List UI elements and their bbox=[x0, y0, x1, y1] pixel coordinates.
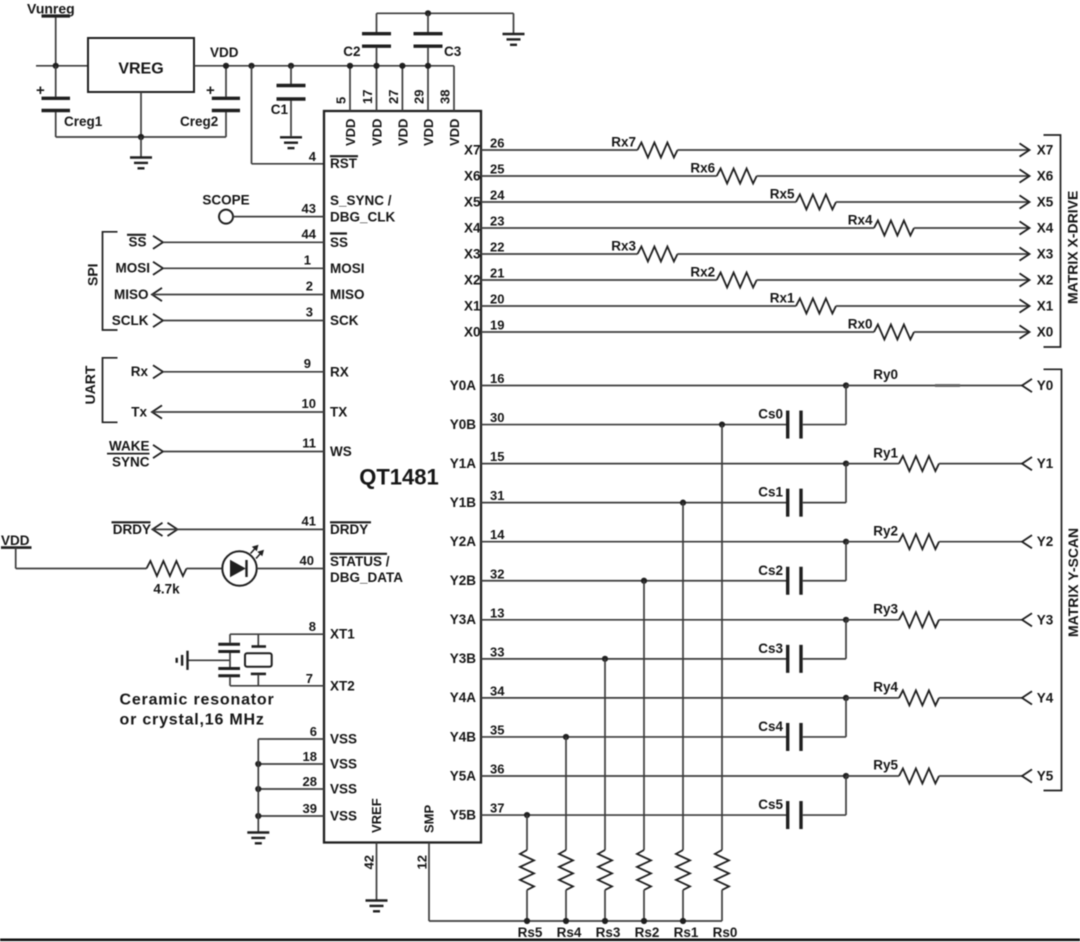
svg-text:VDD: VDD bbox=[395, 119, 410, 146]
svg-text:WAKE: WAKE bbox=[109, 438, 150, 453]
svg-text:SCK: SCK bbox=[330, 313, 359, 328]
svg-text:MOSI: MOSI bbox=[330, 261, 365, 276]
svg-text:UART: UART bbox=[82, 365, 98, 404]
ground (VSS) bbox=[247, 833, 269, 844]
svg-text:Y1B: Y1B bbox=[450, 495, 477, 510]
svg-text:Rx1: Rx1 bbox=[770, 291, 795, 306]
svg-text:32: 32 bbox=[490, 566, 504, 581]
svg-text:MATRIX X-DRIVE: MATRIX X-DRIVE bbox=[1065, 191, 1080, 304]
Y3B row: pin 33, capacitor Cs3 bbox=[450, 620, 846, 673]
svg-text:S_SYNC /: S_SYNC / bbox=[330, 193, 392, 208]
X4 row: pin 23, resistor Rx4, net X4 bbox=[464, 213, 1054, 236]
resistor Rs4 (Y4B sample line) bbox=[557, 737, 582, 940]
wire Vunreg down bbox=[55, 18, 57, 66]
Y1A row: pin 15, resistor Ry1, net Y1 bbox=[450, 445, 1054, 471]
Y2A row: pin 14, resistor Ry2, net Y2 bbox=[450, 523, 1054, 549]
svg-text:10: 10 bbox=[302, 396, 316, 411]
svg-text:STATUS /: STATUS / bbox=[330, 554, 390, 569]
svg-text:8: 8 bbox=[309, 619, 316, 634]
pin 28 VSS bbox=[255, 774, 357, 796]
pin 43 S_SYNC/DBG_CLK wire bbox=[233, 193, 396, 225]
svg-text:X4: X4 bbox=[464, 220, 481, 235]
svg-text:VDD: VDD bbox=[210, 45, 239, 60]
svg-text:X6: X6 bbox=[1037, 169, 1054, 184]
svg-text:DRDY: DRDY bbox=[330, 522, 368, 537]
svg-text:Rs2: Rs2 bbox=[635, 925, 660, 940]
pin 27 VDD bbox=[386, 63, 411, 146]
svg-text:33: 33 bbox=[490, 644, 504, 659]
bracket MATRIX Y-SCAN bbox=[1044, 369, 1080, 790]
svg-text:14: 14 bbox=[490, 527, 505, 542]
svg-text:25: 25 bbox=[490, 162, 504, 177]
svg-text:Rs4: Rs4 bbox=[557, 925, 582, 940]
svg-text:11: 11 bbox=[302, 436, 316, 451]
svg-text:XT2: XT2 bbox=[330, 678, 355, 693]
wire VREG bottom bbox=[140, 92, 142, 137]
net label Vunreg bbox=[27, 1, 75, 17]
svg-text:Cs0: Cs0 bbox=[758, 407, 783, 422]
svg-text:SCOPE: SCOPE bbox=[202, 193, 249, 208]
svg-text:39: 39 bbox=[303, 801, 317, 816]
svg-text:6: 6 bbox=[310, 724, 317, 739]
svg-text:Y0B: Y0B bbox=[450, 417, 477, 432]
X3 row: pin 22, resistor Rx3, net X3 bbox=[464, 239, 1054, 262]
svg-text:Rs0: Rs0 bbox=[713, 925, 738, 940]
svg-text:Y2B: Y2B bbox=[450, 573, 477, 588]
svg-text:5: 5 bbox=[334, 97, 349, 104]
svg-text:Y3: Y3 bbox=[1037, 612, 1054, 627]
svg-text:RST: RST bbox=[330, 156, 358, 171]
pin 18 VSS bbox=[255, 749, 357, 771]
X2 row: pin 21, resistor Rx2, net X2 bbox=[464, 265, 1053, 288]
svg-text:X3: X3 bbox=[1037, 247, 1054, 262]
svg-text:4: 4 bbox=[309, 149, 317, 164]
svg-text:15: 15 bbox=[490, 449, 504, 464]
ground (VREF) bbox=[366, 901, 388, 912]
svg-text:Rx7: Rx7 bbox=[611, 135, 636, 150]
pin 41 DRDY bbox=[112, 514, 372, 537]
pin 39 VSS bbox=[255, 801, 357, 823]
svg-text:or crystal,16 MHz: or crystal,16 MHz bbox=[120, 712, 265, 729]
voltage regulator VREG bbox=[88, 38, 194, 92]
pin 5 VDD bbox=[334, 63, 359, 146]
wire Creg1 to Creg2 bottom bbox=[56, 136, 226, 138]
svg-text:2: 2 bbox=[306, 279, 313, 294]
svg-text:Y3B: Y3B bbox=[450, 651, 477, 666]
svg-text:X2: X2 bbox=[1037, 273, 1054, 288]
resistor Rs1 (Y1B sample line) bbox=[674, 503, 699, 940]
SCOPE node bbox=[202, 193, 249, 224]
svg-text:Ry2: Ry2 bbox=[873, 523, 898, 538]
svg-text:Rx4: Rx4 bbox=[848, 213, 873, 228]
svg-text:VREF: VREF bbox=[369, 798, 384, 833]
capacitor C1 bbox=[271, 66, 306, 136]
svg-text:QT1481: QT1481 bbox=[359, 465, 439, 490]
svg-text:X0: X0 bbox=[1037, 325, 1054, 340]
ground (resonator) bbox=[177, 651, 188, 670]
X6 row: pin 25, resistor Rx6, net X6 bbox=[464, 161, 1054, 184]
svg-text:MOSI: MOSI bbox=[115, 261, 150, 276]
junction VDD/C1 bbox=[288, 63, 294, 69]
svg-text:Ry1: Ry1 bbox=[873, 445, 898, 460]
svg-text:Rx0: Rx0 bbox=[848, 317, 873, 332]
svg-text:MISO: MISO bbox=[114, 287, 149, 302]
svg-text:Ry0: Ry0 bbox=[873, 367, 898, 382]
svg-text:X7: X7 bbox=[464, 142, 481, 157]
junction VDD/RST drop bbox=[248, 63, 254, 69]
svg-text:18: 18 bbox=[303, 749, 317, 764]
svg-text:17: 17 bbox=[360, 90, 375, 104]
IC U1 QT1481 body bbox=[324, 111, 481, 843]
svg-text:+: + bbox=[206, 82, 215, 99]
svg-text:30: 30 bbox=[490, 410, 504, 425]
junction VREG ground bbox=[138, 134, 144, 140]
resistor Rs0 (Y0B sample line) bbox=[713, 425, 738, 940]
svg-text:Y4A: Y4A bbox=[450, 690, 477, 705]
svg-text:C2: C2 bbox=[343, 44, 360, 59]
pin 29 VDD bbox=[412, 63, 437, 146]
bracket MATRIX X-DRIVE bbox=[1044, 135, 1080, 347]
capacitor Creg1 bbox=[36, 66, 103, 137]
svg-text:Rs5: Rs5 bbox=[518, 925, 543, 940]
svg-text:29: 29 bbox=[412, 90, 427, 104]
svg-text:23: 23 bbox=[490, 214, 504, 229]
svg-text:MATRIX Y-SCAN: MATRIX Y-SCAN bbox=[1065, 528, 1080, 637]
X7 row: pin 26, resistor Rx7, net X7 bbox=[464, 135, 1053, 158]
svg-text:Y2: Y2 bbox=[1037, 534, 1054, 549]
svg-text:Y4: Y4 bbox=[1037, 690, 1054, 705]
svg-text:Rs1: Rs1 bbox=[674, 925, 699, 940]
svg-text:+: + bbox=[36, 82, 45, 99]
Y1B row: pin 31, capacitor Cs1 bbox=[450, 464, 846, 517]
wire top rail bbox=[377, 12, 514, 14]
ground (VREG) bbox=[130, 137, 152, 168]
svg-text:DRDY: DRDY bbox=[113, 522, 151, 537]
svg-text:27: 27 bbox=[386, 90, 401, 104]
svg-text:Rx2: Rx2 bbox=[690, 265, 715, 280]
svg-text:37: 37 bbox=[490, 801, 504, 816]
svg-text:C3: C3 bbox=[444, 44, 462, 59]
ground (C1) bbox=[280, 137, 302, 148]
svg-text:40: 40 bbox=[300, 553, 314, 568]
svg-text:VSS: VSS bbox=[330, 781, 357, 796]
svg-text:Y3A: Y3A bbox=[450, 612, 477, 627]
svg-text:Y2A: Y2A bbox=[450, 534, 477, 549]
svg-text:Creg2: Creg2 bbox=[180, 114, 218, 129]
svg-text:X5: X5 bbox=[464, 194, 481, 209]
svg-text:X4: X4 bbox=[1037, 221, 1054, 236]
svg-text:X5: X5 bbox=[1037, 195, 1054, 210]
svg-text:Vunreg: Vunreg bbox=[27, 1, 75, 17]
wire VDD rail bbox=[194, 65, 454, 67]
UART bracket bbox=[82, 358, 118, 423]
svg-text:19: 19 bbox=[490, 318, 504, 333]
svg-text:Ry4: Ry4 bbox=[873, 680, 898, 695]
svg-text:Creg1: Creg1 bbox=[64, 114, 103, 129]
pin 3 SCK bbox=[112, 305, 359, 328]
svg-text:SYNC: SYNC bbox=[112, 455, 150, 470]
svg-text:35: 35 bbox=[490, 722, 504, 737]
svg-text:Cs3: Cs3 bbox=[758, 641, 783, 656]
svg-text:Cs2: Cs2 bbox=[758, 563, 783, 578]
svg-text:Cs1: Cs1 bbox=[758, 485, 783, 500]
pin 4 RST label bbox=[309, 149, 358, 171]
svg-text:Rx6: Rx6 bbox=[690, 161, 715, 176]
svg-text:12: 12 bbox=[415, 855, 430, 869]
Y5A row: pin 36, resistor Ry5, net Y5 bbox=[450, 758, 1054, 784]
svg-text:41: 41 bbox=[302, 514, 316, 529]
pin 40 STATUS wire bbox=[257, 553, 403, 585]
Y0A row: pin 16, resistor Ry0, net Y0 bbox=[450, 367, 1054, 393]
wire RST drop bbox=[252, 66, 325, 164]
pin 8 XT1 wire bbox=[230, 619, 355, 642]
svg-text:Rx: Rx bbox=[131, 364, 149, 379]
svg-text:VDD: VDD bbox=[343, 119, 358, 146]
svg-text:26: 26 bbox=[490, 136, 504, 151]
svg-text:DBG_DATA: DBG_DATA bbox=[330, 570, 403, 585]
svg-text:38: 38 bbox=[438, 90, 453, 104]
svg-text:Ry3: Ry3 bbox=[873, 602, 898, 617]
capacitor XT load top bbox=[218, 634, 240, 660]
pin 10 TX bbox=[131, 396, 347, 419]
svg-text:7: 7 bbox=[306, 671, 313, 686]
svg-text:VDD: VDD bbox=[1, 533, 30, 548]
svg-text:Tx: Tx bbox=[131, 405, 147, 420]
svg-text:C1: C1 bbox=[271, 102, 289, 117]
svg-text:Y1A: Y1A bbox=[450, 456, 477, 471]
label ceramic resonator bbox=[120, 692, 275, 729]
net label VDD (LED) bbox=[1, 533, 32, 548]
Y2B row: pin 32, capacitor Cs2 bbox=[450, 542, 846, 595]
pin 6 VSS bbox=[258, 724, 357, 746]
svg-text:Rs3: Rs3 bbox=[596, 925, 621, 940]
svg-text:24: 24 bbox=[490, 188, 505, 203]
svg-text:WS: WS bbox=[330, 444, 352, 459]
svg-text:VSS: VSS bbox=[330, 756, 357, 771]
svg-text:Y5B: Y5B bbox=[450, 807, 477, 822]
svg-text:20: 20 bbox=[490, 292, 504, 307]
pin 1 MOSI bbox=[115, 253, 364, 276]
capacitor XT load bottom bbox=[218, 660, 240, 686]
svg-text:X3: X3 bbox=[464, 246, 481, 261]
X0 row: pin 19, resistor Rx0, net X0 bbox=[464, 317, 1053, 340]
resistor 4.7k bbox=[147, 561, 187, 597]
svg-text:31: 31 bbox=[490, 488, 504, 503]
wire top rail to ground bbox=[513, 13, 515, 33]
svg-text:9: 9 bbox=[304, 356, 311, 371]
wire VSS bus bbox=[257, 739, 259, 832]
capacitor Creg2 bbox=[180, 66, 240, 137]
svg-text:SS: SS bbox=[128, 234, 146, 249]
wire resistor to LED bbox=[187, 568, 223, 570]
svg-text:X0: X0 bbox=[464, 324, 481, 339]
svg-text:VREG: VREG bbox=[118, 61, 163, 78]
svg-text:16: 16 bbox=[490, 371, 504, 386]
svg-text:13: 13 bbox=[490, 605, 504, 620]
X5 row: pin 24, resistor Rx5, net X5 bbox=[464, 187, 1054, 210]
svg-text:Cs4: Cs4 bbox=[758, 719, 783, 734]
crystal Y1 bbox=[245, 634, 272, 686]
pin 7 XT2 wire bbox=[230, 671, 355, 693]
svg-text:4.7k: 4.7k bbox=[153, 582, 180, 597]
page bottom border bbox=[0, 939, 1080, 942]
svg-text:Y1: Y1 bbox=[1037, 456, 1054, 471]
svg-text:TX: TX bbox=[330, 405, 347, 420]
svg-text:VSS: VSS bbox=[330, 808, 357, 823]
svg-text:RX: RX bbox=[330, 364, 349, 379]
pin 42 VREF bbox=[362, 798, 385, 899]
junction Vunreg/Creg1 bbox=[53, 63, 59, 69]
junction top rail C3 bbox=[425, 10, 431, 16]
svg-text:DBG_CLK: DBG_CLK bbox=[330, 210, 396, 225]
svg-text:SMP: SMP bbox=[422, 805, 437, 834]
svg-text:X7: X7 bbox=[1037, 143, 1054, 158]
pin 11 WS bbox=[107, 436, 352, 470]
LED D1 bbox=[222, 545, 264, 586]
svg-text:VDD: VDD bbox=[421, 119, 436, 146]
svg-text:1: 1 bbox=[304, 253, 311, 268]
svg-text:36: 36 bbox=[490, 762, 504, 777]
svg-text:Y4B: Y4B bbox=[450, 729, 477, 744]
svg-text:MISO: MISO bbox=[330, 287, 365, 302]
svg-text:Ry5: Ry5 bbox=[873, 758, 898, 773]
svg-text:Y5A: Y5A bbox=[450, 768, 477, 783]
ground (top right) bbox=[503, 34, 525, 45]
resistor Rs5 (Y5B sample line) bbox=[518, 815, 543, 940]
Y5B row: pin 37, capacitor Cs5 bbox=[450, 776, 846, 829]
pin 44 SS bbox=[127, 227, 348, 250]
X1 row: pin 20, resistor Rx1, net X1 bbox=[464, 291, 1054, 314]
svg-text:VDD: VDD bbox=[447, 119, 462, 146]
pin 38 VDD bbox=[438, 66, 463, 146]
svg-text:Ceramic resonator: Ceramic resonator bbox=[120, 692, 275, 709]
svg-text:21: 21 bbox=[490, 266, 504, 281]
wire VDD to resistor bbox=[16, 548, 147, 569]
svg-text:VDD: VDD bbox=[370, 119, 385, 146]
Y0B row: pin 30, capacitor Cs0 bbox=[450, 386, 846, 439]
pin 12 SMP bbox=[415, 805, 723, 922]
pin 17 VDD bbox=[360, 63, 385, 146]
svg-text:Rx5: Rx5 bbox=[770, 187, 795, 202]
svg-text:X1: X1 bbox=[1037, 299, 1054, 314]
resistor Rs2 (Y2B sample line) bbox=[635, 581, 660, 940]
wire Vunreg rail to VREG bbox=[36, 65, 88, 67]
svg-text:Y5: Y5 bbox=[1037, 769, 1054, 784]
svg-text:34: 34 bbox=[490, 683, 505, 698]
svg-text:22: 22 bbox=[490, 240, 504, 255]
svg-text:X1: X1 bbox=[464, 298, 481, 313]
svg-text:Y0A: Y0A bbox=[450, 378, 477, 393]
Y4A row: pin 34, resistor Ry4, net Y4 bbox=[450, 680, 1054, 706]
capacitor C2 bbox=[343, 13, 391, 66]
svg-text:VSS: VSS bbox=[330, 731, 357, 746]
svg-text:XT1: XT1 bbox=[330, 627, 355, 642]
resistor Rs3 (Y3B sample line) bbox=[596, 659, 621, 940]
pin 2 MISO bbox=[114, 279, 365, 302]
Y3A row: pin 13, resistor Ry3, net Y3 bbox=[450, 602, 1054, 628]
svg-text:43: 43 bbox=[302, 201, 316, 216]
svg-text:X2: X2 bbox=[464, 272, 481, 287]
wire resonator mid to ground bbox=[188, 659, 231, 661]
Y4B row: pin 35, capacitor Cs4 bbox=[450, 698, 846, 751]
svg-text:Y0: Y0 bbox=[1037, 378, 1054, 393]
svg-text:44: 44 bbox=[302, 227, 317, 242]
svg-text:SPI: SPI bbox=[85, 263, 101, 286]
svg-text:3: 3 bbox=[306, 305, 313, 320]
svg-text:42: 42 bbox=[362, 855, 377, 869]
pin 9 RX bbox=[131, 356, 349, 379]
junction Creg2/VDD bbox=[223, 63, 229, 69]
net label VDD bbox=[210, 45, 239, 60]
capacitor C3 bbox=[414, 13, 462, 66]
SPI bracket bbox=[85, 232, 118, 330]
svg-text:SCLK: SCLK bbox=[112, 313, 149, 328]
svg-text:28: 28 bbox=[303, 774, 317, 789]
svg-text:X6: X6 bbox=[464, 168, 481, 183]
svg-text:Rx3: Rx3 bbox=[611, 239, 636, 254]
svg-text:Cs5: Cs5 bbox=[758, 797, 783, 812]
svg-text:SS: SS bbox=[330, 235, 348, 250]
